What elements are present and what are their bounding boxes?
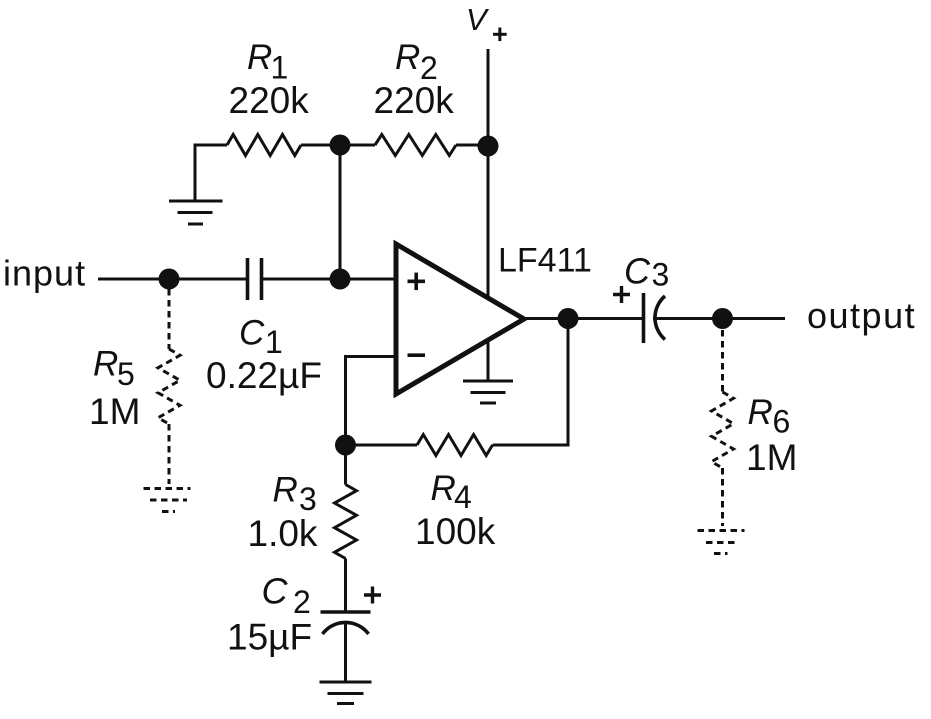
svg-text:220k: 220k: [374, 80, 455, 121]
svg-text:C: C: [239, 314, 265, 353]
wire R1 left lead: [195, 145, 227, 201]
wire junction to R2: [340, 144, 375, 147]
svg-text:1M: 1M: [746, 437, 797, 478]
node at V+ / R2: [478, 136, 499, 157]
wire input line left of C1: [98, 278, 246, 281]
svg-text:1M: 1M: [89, 391, 140, 432]
svg-text:R: R: [273, 470, 298, 509]
op-amp U1 triangle: [396, 244, 524, 394]
svg-text:C: C: [624, 251, 651, 292]
wire R2 right lead: [456, 144, 488, 147]
wire R4 to output node: [493, 319, 569, 446]
svg-text:R: R: [748, 393, 773, 432]
node at output / R6: [712, 308, 733, 329]
wire op-amp output: [524, 317, 642, 320]
svg-text:1.0k: 1.0k: [248, 513, 318, 554]
resistor R3: [335, 485, 357, 559]
node at R3/R4 feedback: [335, 435, 356, 456]
svg-text:V: V: [466, 2, 490, 37]
wire node to R4: [346, 444, 418, 447]
svg-text:6: 6: [773, 404, 791, 440]
ground at R1: [169, 201, 223, 224]
svg-text:C: C: [262, 571, 289, 612]
ground at C2: [320, 682, 372, 704]
resistor R6 (dashed): [712, 392, 734, 468]
wire C1 to op-amp + input: [263, 278, 396, 281]
capacitor C2 top plate: [321, 610, 371, 614]
svg-text:3: 3: [299, 481, 317, 517]
resistor R6 dashed wire top: [721, 330, 724, 392]
op-amp - input symbol: [408, 353, 426, 357]
wire op-amp V- stub: [487, 340, 490, 381]
capacitor C3 straight plate: [642, 293, 646, 343]
wire node to R3: [344, 445, 347, 485]
svg-text:input: input: [3, 253, 86, 294]
capacitor C2 curved plate: [323, 622, 369, 634]
resistor R2: [375, 135, 456, 156]
wire inverting input to feedback node: [346, 357, 397, 446]
svg-text:output: output: [807, 295, 916, 336]
svg-text:R: R: [93, 345, 118, 384]
svg-text:R: R: [431, 469, 456, 508]
wire R3 to C2: [344, 559, 347, 612]
dashed ground at R5: [144, 489, 191, 512]
svg-text:R: R: [247, 38, 272, 77]
wire R1 to junction: [301, 144, 340, 147]
resistor R5 (dashed): [158, 349, 180, 424]
svg-text:3: 3: [652, 257, 670, 293]
wire C2 to ground: [344, 623, 347, 682]
svg-text:R: R: [395, 38, 420, 77]
svg-text:100k: 100k: [415, 511, 496, 552]
svg-text:5: 5: [117, 356, 135, 392]
capacitor C3 curved plate: [655, 296, 665, 340]
svg-text:LF411: LF411: [498, 242, 592, 280]
svg-text:2: 2: [293, 584, 311, 620]
op-amp + input symbol: [408, 273, 426, 291]
wire V+ vertical: [487, 49, 490, 298]
plus sign of C3: [613, 286, 630, 303]
node at R1/R2 junction: [330, 135, 351, 156]
wire vertical from R1/R2 junction down to + input node: [339, 145, 342, 279]
dashed ground at R6: [698, 531, 745, 554]
resistor R5 dashed wire top: [168, 289, 171, 349]
resistor R1: [227, 135, 301, 156]
resistor R5 dashed wire bottom: [168, 424, 171, 484]
plus sign of C2: [364, 587, 381, 604]
capacitor C1: [248, 258, 262, 300]
svg-text:15µF: 15µF: [227, 617, 312, 658]
resistor R4: [417, 435, 493, 456]
svg-text:220k: 220k: [229, 80, 310, 121]
svg-text:4: 4: [454, 479, 472, 515]
resistor R6 dashed wire bottom: [721, 468, 724, 526]
node at input / R5: [159, 269, 180, 290]
node at + input junction: [330, 269, 351, 290]
ground at op-amp: [463, 381, 513, 403]
wire C3 to output: [653, 317, 785, 320]
node at op-amp output: [558, 308, 579, 329]
svg-text:0.22µF: 0.22µF: [206, 355, 322, 396]
